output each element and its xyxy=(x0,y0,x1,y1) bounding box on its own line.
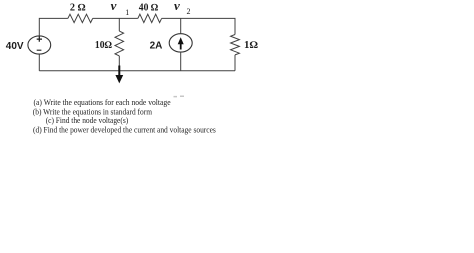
wire: right branch bottom xyxy=(234,55,236,71)
question text line (a) xyxy=(34,98,172,107)
svg-text:2 Ω: 2 Ω xyxy=(70,3,86,14)
value label 40 ohm for resistor xyxy=(139,3,159,14)
value label 40V for voltage source xyxy=(6,41,24,52)
svg-text:2: 2 xyxy=(187,7,191,16)
wire: top rail between 2ohm and 40ohm through node v1 xyxy=(93,17,138,19)
faint smudge artifact after line (a) xyxy=(174,95,185,97)
ground (reference node downward arrow) xyxy=(115,66,123,84)
value label 1 ohm for resistor xyxy=(244,40,258,51)
svg-text:1: 1 xyxy=(125,8,129,17)
wire: top rail from 40ohm to top-right corner and right riser xyxy=(162,18,235,34)
wire: bottom rail xyxy=(39,70,235,72)
voltage source minus sign xyxy=(37,49,42,51)
svg-text:(c) Find the node voltage(s): (c) Find the node voltage(s) xyxy=(46,116,129,125)
svg-text:(a) Write the equations for ea: (a) Write the equations for each node vo… xyxy=(34,98,172,107)
wire: current source bottom to bottom rail xyxy=(180,52,182,71)
resistor 40ohm zigzag xyxy=(138,14,162,22)
value label 10 ohm for resistor xyxy=(95,40,112,51)
wire: left branch bottom from voltage source to bottom rail xyxy=(38,54,40,71)
voltage source plus sign xyxy=(37,36,42,41)
question text line (b) xyxy=(33,108,153,117)
node v2 label (italic v) xyxy=(174,0,180,13)
resistor 1ohm zigzag xyxy=(231,35,240,55)
svg-text:(d) Find the power developed t: (d) Find the power developed the current… xyxy=(33,126,216,135)
svg-text:v: v xyxy=(111,0,117,13)
node v1 subscript 1 xyxy=(125,8,129,17)
question text line (d) xyxy=(33,126,216,135)
wire: 10ohm bottom to bottom rail xyxy=(118,56,120,71)
svg-text:10Ω: 10Ω xyxy=(95,40,112,51)
svg-text:40V: 40V xyxy=(6,41,24,52)
svg-text:1Ω: 1Ω xyxy=(244,40,258,51)
node v2 subscript 2 xyxy=(187,7,191,16)
resistor 2ohm zigzag xyxy=(68,14,93,22)
current source arrow (upward) xyxy=(178,37,184,49)
wire: node v2 branch from top rail to current source xyxy=(180,18,182,33)
wire: left riser from voltage source plus terminal to top rail xyxy=(39,18,68,36)
value label 2A for current source xyxy=(150,40,163,51)
current source 2A (circle symbol) xyxy=(169,34,192,52)
voltage source 40V (circle symbol) xyxy=(28,36,51,54)
value label 2 ohm for resistor xyxy=(70,3,86,14)
svg-text:40 Ω: 40 Ω xyxy=(139,3,159,14)
question text line (c) xyxy=(46,116,129,125)
wire: node v1 branch from top rail to 10ohm xyxy=(118,18,120,31)
svg-text:2A: 2A xyxy=(150,40,163,51)
resistor 10ohm zigzag xyxy=(115,31,124,56)
node v1 label (italic v) xyxy=(111,0,117,13)
svg-text:v: v xyxy=(174,0,180,13)
